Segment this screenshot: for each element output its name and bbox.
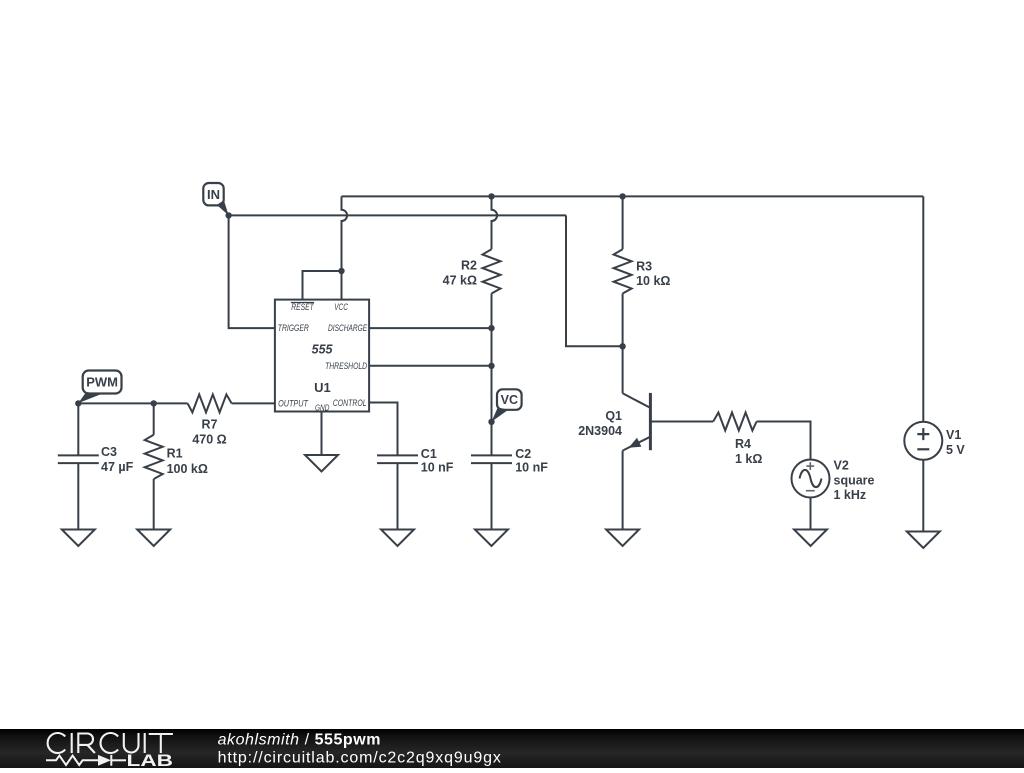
node threshold [488,363,494,369]
wire OUTPUT rail left lead [78,402,187,404]
logo CIRCUIT [48,733,173,753]
wire OUTPUT rail right lead [232,402,275,404]
bottom bar [0,729,1024,770]
svg-text:OUTPUT: OUTPUT [278,399,309,409]
flag VC [492,389,522,422]
wire R1 top lead [153,403,155,434]
node IN [225,212,231,218]
wire R4 to V2 [757,422,811,460]
svg-text:5 V: 5 V [946,443,965,457]
svg-text:R4: R4 [735,437,751,451]
ground R1 [137,530,170,547]
svg-text:THRESHOLD: THRESHOLD [325,361,367,371]
wire C3 top lead [77,403,79,455]
svg-text:2N3904: 2N3904 [578,424,622,438]
svg-text:47 µF: 47 µF [101,460,134,474]
ground V2 [794,530,827,547]
wire IN rail [229,214,566,216]
wire top rail VCC net [342,195,924,197]
wire R1 to ground [153,479,155,530]
wire CONTROL to C1 [369,403,397,456]
svg-text:square: square [834,474,875,488]
resistor R3 body [614,249,632,293]
transistor Q1 [623,346,714,529]
op-amp-box IC U1 555 outline [275,300,369,412]
svg-text:C1: C1 [421,447,437,461]
resistor R4 body [713,413,756,431]
svg-text:akohlsmith / 555pwm: akohlsmith / 555pwm [218,731,381,748]
svg-text:VC: VC [501,393,518,407]
wire V1 drop [922,196,924,421]
wire R2 bottom to C2 column [491,294,493,456]
resistor R1 body [145,435,163,479]
capacitor C1 plates [377,455,418,463]
node junction dots [75,193,626,425]
svg-text:10 nF: 10 nF [515,461,548,475]
ground C3 [62,530,95,547]
node R3 top [619,193,625,199]
node PWM [75,400,81,406]
svg-text:http://circuitlab.com/c2c2q9xq: http://circuitlab.com/c2c2q9xq9u9gx [218,750,502,767]
logo resistor-diode strip [46,755,126,766]
svg-text:47 kΩ: 47 kΩ [443,274,477,288]
flag PWM [78,371,121,404]
svg-text:GND: GND [315,403,329,413]
wire V1 to ground [922,460,924,532]
svg-text:V2: V2 [834,459,849,473]
wire DISCHARGE [369,327,491,329]
wire V2 to ground [810,498,812,530]
svg-text:R3: R3 [636,260,652,274]
svg-text:555: 555 [312,343,334,357]
svg-text:V1: V1 [946,428,961,442]
ground U1 [305,455,338,472]
svg-text:C2: C2 [515,447,531,461]
svg-text:RESET: RESET [291,302,314,312]
wire C1 to ground [397,463,399,529]
svg-text:U1: U1 [314,380,331,395]
node R3 bottom / collector [619,343,625,349]
voltage source V1 [904,422,942,460]
svg-text:VCC: VCC [334,302,348,312]
svg-text:IN: IN [207,187,220,202]
svg-text:1 kΩ: 1 kΩ [735,452,762,466]
capacitor C2 plates [471,455,512,463]
wire IN rail drop to collector node [566,215,623,346]
wire THRESHOLD [369,365,491,367]
wire C2 to ground [491,463,493,529]
component value labels [101,259,965,503]
svg-text:1 kHz: 1 kHz [834,488,867,502]
ground Q1 emitter [606,530,639,547]
svg-text:C3: C3 [101,445,117,459]
node R1/R7 junction [151,400,157,406]
capacitor C3 plates [58,455,99,463]
node VC [488,419,494,425]
wire R2 top lead with hop [492,196,498,249]
svg-text:100 kΩ: 100 kΩ [167,462,208,476]
resistor R2 body [483,249,501,293]
svg-text:10 nF: 10 nF [421,461,454,475]
wire R3 top lead [622,196,624,249]
node RESET/VCC junction [338,268,344,274]
wire 555 GND pin [321,412,323,456]
svg-text:R2: R2 [461,259,477,273]
svg-text:LAB: LAB [127,752,174,768]
ground C1 [381,530,414,547]
voltage source V2 [792,460,830,498]
svg-text:CONTROL: CONTROL [333,398,367,408]
svg-text:TRIGGER: TRIGGER [278,323,309,333]
svg-text:470 Ω: 470 Ω [192,433,226,447]
flag IN [203,183,228,215]
svg-text:DISCHARGE: DISCHARGE [328,323,368,333]
ground V1 [907,532,940,549]
node R2 top [488,193,494,199]
svg-text:R7: R7 [202,417,218,431]
resistor R7 body [188,394,232,412]
wire TRIGGER [229,215,275,328]
wire RESET jog [303,271,342,300]
svg-text:10 kΩ: 10 kΩ [636,274,670,288]
wire VCC vertical with hop over IN rail [342,196,348,299]
wire R3 bottom to collector [622,294,624,347]
U1 pin and name labels [278,302,368,412]
node R2 bottom / discharge [488,325,494,331]
ground C2 [475,530,508,547]
svg-text:PWM: PWM [86,375,118,390]
wire C3 to ground [77,463,79,529]
svg-text:R1: R1 [167,447,183,461]
svg-text:Q1: Q1 [605,409,622,423]
